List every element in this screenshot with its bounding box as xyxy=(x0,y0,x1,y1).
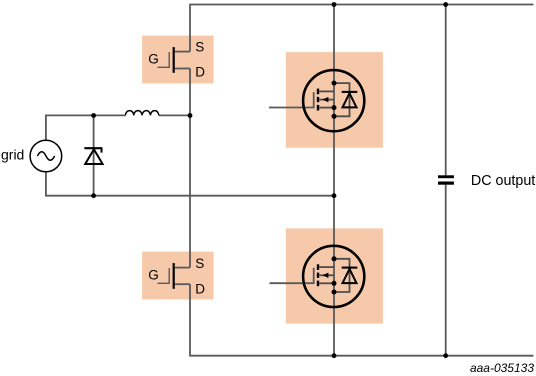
Q2 channel bar xyxy=(173,263,175,289)
svg-text:D: D xyxy=(195,282,205,297)
node dot: diode top xyxy=(91,113,96,118)
transistor Q1 top-left MOSFET xyxy=(158,47,190,73)
svg-text:G: G xyxy=(148,52,159,67)
diode D1 xyxy=(84,148,102,164)
node dot: bottom rail / center branch xyxy=(332,353,337,358)
Q4 junction dots xyxy=(332,256,337,261)
Q4 body diode xyxy=(342,267,358,269)
wire top rail xyxy=(190,4,534,6)
Q4 channel segments xyxy=(317,264,319,270)
capacitor C1 xyxy=(438,175,454,184)
wire grid top: source to inductor xyxy=(46,115,126,140)
Q4 circle xyxy=(303,246,364,307)
transistor Q4 bottom GaN FET in circle xyxy=(270,246,365,307)
svg-text:S: S xyxy=(195,39,204,54)
Q4 source contact xyxy=(319,282,334,284)
Q3 drain contact xyxy=(319,90,334,92)
Q1 source lead xyxy=(175,51,190,53)
wire left branch upper xyxy=(189,4,191,52)
svg-text:grid: grid xyxy=(1,147,24,163)
Q1 channel bar xyxy=(173,47,175,73)
svg-text:S: S xyxy=(195,256,204,271)
Q1 gate lead xyxy=(158,52,170,67)
Q4 body-diode branch xyxy=(334,259,350,292)
svg-text:aaa-035133: aaa-035133 xyxy=(470,361,534,375)
Q3 junction dots xyxy=(332,81,337,86)
AC source V1 grid xyxy=(30,140,62,172)
Q3 source contact xyxy=(319,107,334,109)
svg-text:D: D xyxy=(195,64,205,79)
wire left branch middle xyxy=(189,69,191,268)
Q3 gate stub xyxy=(269,92,314,107)
Q3 circle xyxy=(303,70,364,131)
wire grid bottom return xyxy=(46,172,334,196)
svg-text:DC output: DC output xyxy=(471,173,535,189)
transistor Q2 bottom-left MOSFET xyxy=(158,263,190,289)
node dot: diode bottom xyxy=(91,193,96,198)
highlight rect top-left MOSFET xyxy=(142,36,214,84)
Q2 gate lead xyxy=(158,268,170,283)
Q3 body contact with arrow xyxy=(319,99,334,101)
Q4 gate stub xyxy=(270,268,314,283)
highlight rect top GaN module xyxy=(286,52,383,148)
inductor L1 xyxy=(125,111,158,116)
highlight rect bottom-left MOSFET xyxy=(142,252,214,300)
wire inductor to node xyxy=(159,114,190,116)
wire center branch xyxy=(333,5,335,356)
wire right branch lower xyxy=(445,185,447,356)
wire diode branch xyxy=(93,115,95,195)
node dot: top rail / center branch xyxy=(332,2,337,7)
Q4 body contact with arrow xyxy=(319,274,334,276)
wire left branch lower xyxy=(189,284,191,356)
transistor Q3 top GaN FET in circle xyxy=(269,70,364,131)
Q1 drain lead xyxy=(175,68,190,70)
Q2 drain lead xyxy=(175,283,190,285)
node dot: top rail / right branch xyxy=(443,2,448,7)
node dot: grid return / center branch xyxy=(332,193,337,198)
Q3 channel segments xyxy=(317,89,319,95)
Q4 drain contact xyxy=(319,266,334,268)
node dot: bottom rail / right branch xyxy=(443,353,448,358)
svg-text:G: G xyxy=(148,268,159,283)
Q3 body-diode branch xyxy=(334,83,350,116)
Q2 source lead xyxy=(175,267,190,269)
wire right branch upper xyxy=(445,5,447,176)
highlight rect bottom GaN module xyxy=(286,228,383,323)
Q3 body diode xyxy=(342,91,358,93)
wire bottom rail xyxy=(190,355,534,357)
node dot: inductor / left branch xyxy=(188,113,193,118)
